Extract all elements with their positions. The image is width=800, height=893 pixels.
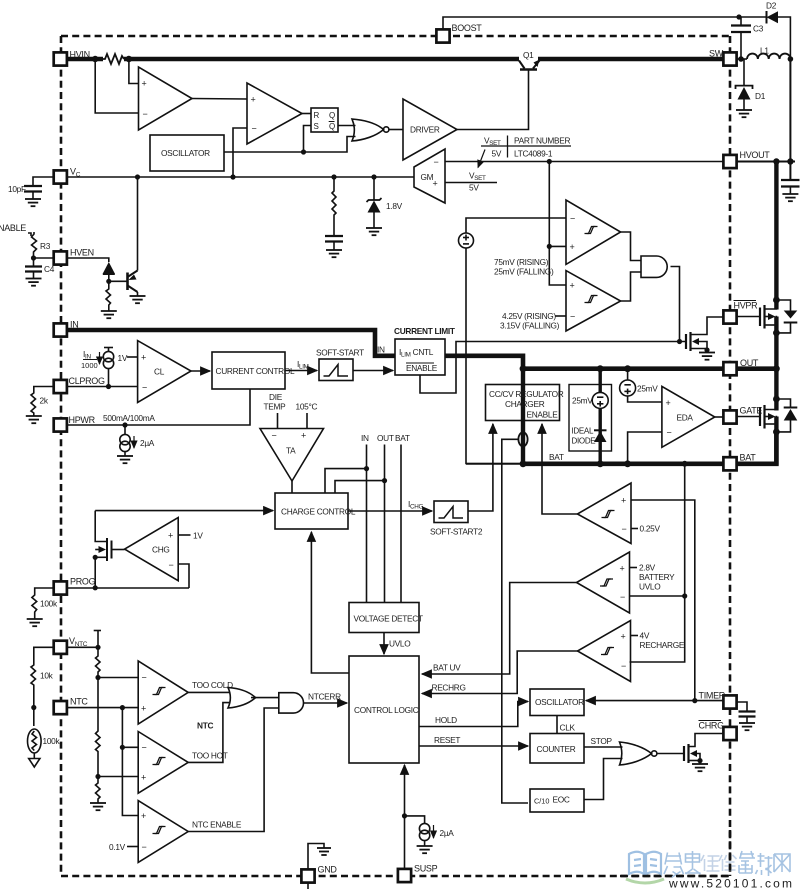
svg-text:4.25V (RISING): 4.25V (RISING) (502, 311, 556, 321)
inductor L1 (747, 54, 790, 59)
svg-text:2µA: 2µA (440, 828, 455, 838)
svg-text:−: − (570, 312, 575, 322)
pin SUSP (398, 869, 411, 882)
svg-text:0.25V: 0.25V (640, 524, 661, 534)
svg-text:RESET: RESET (434, 735, 460, 745)
svg-text:0.1V: 0.1V (109, 842, 126, 852)
thick OUT routing (445, 356, 724, 369)
capacitor C3 (740, 17, 742, 25)
svg-text:VOLTAGE DETECT: VOLTAGE DETECT (354, 614, 423, 624)
soft-start box (319, 359, 353, 381)
wire driver out to Q1 base (457, 70, 529, 130)
amp TA (die temp) (260, 429, 324, 482)
svg-text:TA: TA (286, 446, 296, 456)
svg-text:−: − (143, 109, 148, 119)
TIMER line (586, 700, 724, 702)
svg-text:+: + (433, 179, 438, 189)
svg-text:−: − (667, 428, 672, 438)
svg-text:DIODE: DIODE (572, 437, 596, 446)
pin TIMER (723, 695, 736, 708)
resistor 100k at PROG (32, 588, 55, 619)
comparator 4.25V UVLO (566, 271, 621, 331)
ideal diode block (569, 385, 612, 452)
wire: HVIN to amp1 plus (129, 59, 139, 84)
oscillator box (switcher) (150, 135, 224, 171)
C/10 EOC box (530, 789, 584, 812)
svg-text:CHG: CHG (152, 545, 170, 555)
output capacitor at HVOUT (789, 162, 791, 180)
AND gate U3 (641, 256, 667, 277)
svg-text:EOC: EOC (553, 795, 570, 805)
svg-text:HVIN: HVIN (70, 50, 90, 60)
svg-text:2µA: 2µA (140, 438, 155, 448)
AND gate G4 (279, 693, 304, 713)
svg-text:NTC: NTC (197, 721, 213, 731)
svg-text:DIE: DIE (269, 392, 283, 402)
comparator 2.8V battery uvlo (577, 552, 630, 613)
svg-text:SW: SW (709, 49, 724, 59)
CLK (556, 716, 558, 734)
svg-text:D1: D1 (755, 91, 766, 101)
wire: VC line (67, 176, 414, 178)
svg-text:EDA: EDA (677, 413, 694, 423)
pin CHRG (723, 727, 736, 740)
pins top (54, 23, 737, 66)
compensation R and C on VC (332, 177, 336, 235)
wire CHG drain to charge control (95, 510, 273, 512)
node on HVIN (92, 56, 98, 62)
NMOS M1 (HVPR pulldown) (685, 334, 687, 349)
NMOS M4 (CHRG) (683, 746, 685, 761)
wire Qbar to NOR (338, 125, 356, 127)
IC dashed boundary (61, 36, 730, 876)
svg-text:BOOST: BOOST (452, 23, 483, 33)
wire CL out to current control (191, 370, 210, 372)
svg-text:BAT: BAT (740, 453, 757, 463)
svg-text:PROG: PROG (70, 577, 96, 587)
comparator NTC ENABLE (138, 801, 188, 863)
svg-text:1V: 1V (193, 531, 203, 541)
svg-text:BAT: BAT (549, 452, 564, 462)
driver amp (403, 99, 457, 160)
svg-text:100k: 100k (43, 736, 61, 746)
comparator PWM (247, 83, 302, 144)
divider chain inside (96, 647, 101, 677)
svg-text:STOP: STOP (591, 736, 613, 746)
comparator 75mV (HVOUT good) (566, 200, 621, 264)
STOP wire (584, 746, 623, 748)
GM error amp (414, 149, 445, 203)
svg-text:NTCERR: NTCERR (308, 692, 341, 702)
svg-text:+: + (570, 281, 575, 291)
svg-text:+: + (141, 704, 146, 714)
svg-text:CURRENT CONTROL: CURRENT CONTROL (216, 366, 295, 376)
PROG line (67, 587, 189, 589)
svg-text:OSCILLATOR: OSCILLATOR (161, 148, 210, 158)
body diode D (GATE) (776, 399, 790, 408)
thick rail OUT down to GATE PMOS (774, 369, 778, 411)
diode D2 (766, 11, 768, 24)
svg-text:TEMP: TEMP (264, 402, 287, 412)
svg-text:HPWR: HPWR (69, 415, 96, 425)
25mV source for EDA (627, 369, 629, 380)
svg-text:UVLO: UVLO (639, 582, 661, 592)
svg-text:+: + (142, 79, 147, 89)
diode D1 (schottky to gnd) (743, 59, 745, 86)
resistor 10k external (31, 647, 55, 707)
wire: IN thick line (66, 330, 395, 356)
pin VNTC (54, 641, 67, 654)
svg-text:3.15V (FALLING): 3.15V (FALLING) (500, 321, 560, 331)
NOR gate G1 (352, 119, 384, 141)
pin GND (301, 869, 314, 882)
svg-text:OUT: OUT (740, 358, 759, 368)
svg-text:www.520101.com: www.520101.com (668, 877, 792, 891)
svg-text:HVOUT: HVOUT (740, 150, 771, 160)
control logic to charge control (311, 532, 349, 673)
svg-text:4V: 4V (640, 631, 650, 641)
svg-text:HOLD: HOLD (435, 715, 457, 725)
RESET path (419, 745, 528, 747)
pin BAT (723, 457, 736, 470)
watermark (626, 851, 792, 891)
BAT sense chain (630, 464, 685, 662)
resistor 2k at CLPROG (31, 387, 55, 417)
svg-text:CHARGER: CHARGER (505, 399, 545, 409)
svg-text:−: − (620, 592, 625, 602)
TIMER external cap (737, 702, 748, 711)
svg-text:IN: IN (361, 433, 369, 443)
BAT thick line (466, 463, 523, 465)
svg-text:Q1: Q1 (523, 50, 534, 60)
svg-text:−: − (169, 560, 174, 570)
transistor PNP (HVEN) (126, 273, 129, 291)
svg-text:C3: C3 (753, 24, 764, 34)
svg-text:+: + (141, 773, 146, 783)
svg-text:SUSP: SUSP (414, 864, 438, 874)
dashed border redraw over watermark (620, 830, 730, 876)
svg-text:GATE: GATE (740, 406, 763, 416)
wire GM plus to VSET ref (445, 182, 497, 184)
PMOS M3 (ideal diode switch) with body diode (737, 416, 761, 418)
svg-text:CHRG: CHRG (699, 721, 725, 731)
current source 2uA (HPWR) (124, 425, 126, 435)
pin CLPROG (54, 380, 67, 393)
svg-text:10k: 10k (40, 671, 54, 681)
svg-text:10pF: 10pF (8, 184, 26, 194)
soft-start2 out up to charger (468, 424, 493, 511)
pin HVIN (54, 52, 67, 65)
pin VC (54, 170, 67, 183)
svg-text:1.8V: 1.8V (386, 201, 403, 211)
svg-text:5V: 5V (492, 149, 502, 159)
svg-text:GND: GND (318, 865, 338, 875)
wire: HVIN thick rail (66, 57, 103, 62)
svg-text:R: R (314, 111, 320, 120)
wire ILIM to soft-start (285, 370, 317, 372)
svg-text:RECHRG: RECHRG (432, 683, 466, 693)
svg-text:SOFT-START: SOFT-START (316, 348, 364, 358)
wire GM minus / HVOUT sense line (445, 161, 724, 163)
svg-text:CONTROL LOGIC: CONTROL LOGIC (354, 705, 419, 715)
wire Q1 emitter to SW pin (thick) (538, 57, 724, 62)
current source IIN/1000 (104, 347, 113, 349)
BOOST stub and top boost line (443, 17, 739, 30)
wire AND out to NMOS gate line (671, 267, 680, 342)
svg-text:25mV: 25mV (572, 396, 593, 406)
control logic box (349, 656, 419, 763)
svg-text:−: − (622, 524, 627, 534)
svg-text:NTC: NTC (70, 697, 88, 707)
svg-text:+: + (251, 95, 256, 105)
soft-start2 box (434, 501, 468, 523)
svg-text:−: − (142, 383, 147, 393)
svg-text:ENABLE: ENABLE (406, 363, 438, 373)
svg-text:75mV (RISING): 75mV (RISING) (494, 257, 549, 267)
wire SW to L1 (737, 58, 748, 60)
RS flip-flop U2 (311, 108, 338, 132)
pin HVPR (723, 310, 736, 323)
HOLD path (419, 702, 528, 727)
svg-text:Q: Q (329, 122, 335, 131)
sense tap to C/10 line (502, 439, 528, 803)
svg-text:HVEN: HVEN (70, 248, 94, 258)
timer oscillator box (530, 689, 584, 716)
svg-text:L1: L1 (760, 46, 769, 56)
svg-text:UVLO: UVLO (389, 639, 411, 649)
svg-text:C/10: C/10 (534, 797, 549, 806)
svg-text:1000: 1000 (81, 361, 98, 370)
pin IN (54, 323, 67, 336)
EDA minus wire from BAT (628, 432, 662, 464)
pin NTC (54, 701, 67, 714)
svg-text:BAT: BAT (395, 433, 410, 443)
svg-text:DRIVER: DRIVER (410, 125, 440, 135)
zener 1.8V on VC (373, 177, 375, 200)
transistor Q1 (520, 68, 537, 71)
amp EDA (662, 386, 715, 447)
pin GATE (723, 410, 736, 423)
RECHRG path (422, 651, 578, 694)
svg-text:CLK: CLK (560, 723, 576, 733)
wire: HVIN sense to amp1 minus (95, 59, 138, 113)
svg-text:Q: Q (329, 111, 335, 120)
PMOS (PROG pulldown) (111, 541, 113, 559)
svg-text:−: − (621, 661, 626, 671)
svg-text:R3: R3 (40, 241, 51, 251)
PMOS M2 (HVPR power switch) with body diode (737, 316, 761, 318)
BAT UV path (422, 583, 577, 675)
wire L1/D2 node down to HVOUT (789, 59, 791, 162)
svg-text:TIMER: TIMER (699, 691, 726, 701)
NOR gate G2 (620, 742, 652, 765)
svg-text:CHARGE CONTROL: CHARGE CONTROL (281, 507, 356, 517)
svg-text:TOO COLD: TOO COLD (192, 680, 233, 690)
HPWR wire (67, 389, 250, 425)
pin PROG (54, 581, 67, 594)
resistor on HVIN line (103, 54, 124, 64)
svg-text:CL: CL (154, 367, 165, 377)
pin SW (723, 52, 736, 65)
svg-text:NABLE: NABLE (0, 223, 26, 233)
pin BOOST (436, 29, 449, 42)
op-amp A1 (line regulation amp) (139, 67, 193, 130)
svg-text:IN: IN (377, 345, 385, 355)
pin HVOUT (723, 155, 736, 168)
svg-text:1V: 1V (118, 353, 128, 363)
svg-text:5V: 5V (469, 183, 479, 193)
svg-text:+: + (141, 353, 146, 363)
svg-text:IDEAL: IDEAL (572, 427, 594, 436)
VNTC line (67, 646, 98, 648)
svg-text:+: + (620, 564, 625, 574)
svg-text:NTC ENABLE: NTC ENABLE (192, 820, 242, 830)
counter box (530, 734, 584, 764)
svg-text:+: + (168, 531, 173, 541)
wire PWM minus to VC line (233, 128, 247, 177)
body diode D (HVPR) (776, 300, 790, 311)
wire CLPROG line (67, 386, 138, 388)
svg-text:100k: 100k (40, 599, 58, 609)
svg-text:OUT: OUT (377, 433, 394, 443)
ICHG to soft-start2 (348, 510, 432, 512)
svg-text:CURRENT LIMIT: CURRENT LIMIT (394, 326, 455, 336)
CC/CV regulator charger box (486, 385, 560, 421)
svg-text:COUNTER: COUNTER (537, 744, 576, 754)
svg-text:+: + (621, 496, 626, 506)
thick line through charger to BAT with sense oval (521, 369, 525, 464)
svg-text:CC/CV REGULATOR: CC/CV REGULATOR (489, 389, 564, 399)
svg-text:25mV (FALLING): 25mV (FALLING) (494, 267, 554, 277)
current control box (212, 352, 285, 389)
svg-text:+: + (301, 431, 306, 441)
svg-text:25mV: 25mV (637, 384, 658, 394)
wire PWM out to RS flip-flop R (302, 113, 311, 115)
HVEN internal: diode + resistor + PNP (67, 258, 109, 262)
offset source +/- (466, 218, 566, 233)
svg-text:−: − (142, 842, 147, 852)
comparator 4V recharge (578, 621, 631, 682)
charge control box (275, 493, 348, 529)
wire NOR to driver (389, 129, 403, 131)
comparator TOO COLD (138, 661, 188, 724)
svg-text:SOFT-START2: SOFT-START2 (430, 527, 483, 537)
svg-text:−: − (570, 214, 575, 224)
svg-text:+: + (621, 632, 626, 642)
svg-text:BAT UV: BAT UV (433, 663, 461, 673)
svg-text:BATTERY: BATTERY (639, 572, 675, 582)
voltage detect box (349, 603, 419, 633)
svg-text:−: − (272, 431, 277, 441)
ENABLE route to NMOS gate line (420, 342, 686, 394)
svg-text:D2: D2 (766, 1, 777, 11)
svg-text:RECHARGE: RECHARGE (640, 640, 685, 650)
amp CL (138, 341, 191, 403)
svg-text:2k: 2k (40, 396, 49, 406)
wire A1 out to PWM comp (192, 98, 247, 101)
svg-text:+: + (570, 242, 575, 252)
capacitor 10pF at VC pin (33, 177, 55, 186)
thick rail from HVOUT down to HVPR PMOS (774, 162, 778, 310)
SUSP riser with 2uA (404, 765, 406, 869)
sense divider from HVOUT to comparators (549, 162, 566, 286)
svg-text:+: + (141, 811, 146, 821)
GND pin network (308, 844, 324, 870)
svg-text:2.8V: 2.8V (639, 563, 656, 573)
OR gate G3 (228, 688, 256, 709)
comparator 0.25V (577, 483, 631, 544)
NTC pin line (67, 707, 138, 709)
svg-text:+: + (666, 398, 671, 408)
pin HVEN (54, 251, 67, 264)
comparator TOO HOT (138, 732, 188, 794)
svg-text:−: − (142, 743, 147, 753)
pin HPWR (54, 418, 67, 431)
svg-text:−: − (434, 157, 439, 167)
svg-text:S: S (314, 122, 319, 131)
VNTC supply tee (94, 630, 101, 632)
NTCERR to control logic (304, 702, 347, 704)
svg-text:CLPROG: CLPROG (69, 376, 106, 386)
thermistor 100k (33, 708, 35, 727)
amp CHG (125, 518, 179, 581)
svg-text:ENABLE: ENABLE (527, 410, 559, 420)
svg-text:LTC4089-1: LTC4089-1 (514, 149, 553, 159)
svg-text:HVPR: HVPR (734, 301, 759, 311)
pin OUT (723, 362, 736, 375)
UVLO arrow (383, 633, 385, 655)
svg-text:105°C: 105°C (296, 402, 318, 412)
svg-text:−: − (252, 124, 257, 134)
wire HVOUT right section (737, 161, 796, 163)
svg-text:IN: IN (70, 320, 78, 330)
enable from 0.25V comp up to charger (542, 424, 577, 514)
wire oscillator out to S and NOR (224, 137, 356, 153)
svg-text:−: − (142, 673, 147, 683)
svg-text:PART NUMBER: PART NUMBER (514, 136, 570, 146)
svg-text:500mA/100mA: 500mA/100mA (103, 413, 155, 423)
svg-text:OSCILLATOR: OSCILLATOR (535, 697, 584, 707)
